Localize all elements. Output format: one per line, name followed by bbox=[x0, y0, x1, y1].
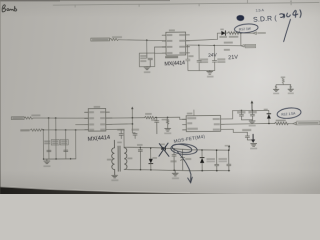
diode D7 bbox=[264, 109, 271, 124]
capacitor C13 (snubber on rail) bbox=[138, 147, 142, 169]
svg-text:R12 1W: R12 1W bbox=[239, 27, 252, 32]
svg-text:21V: 21V bbox=[228, 55, 238, 62]
resistor RF (filter vertical 4) bbox=[75, 130, 77, 159]
svg-text:24V: 24V bbox=[208, 52, 218, 58]
connector J4 (output label box) bbox=[297, 121, 320, 125]
node (junction) bbox=[146, 39, 148, 41]
wire (filter bottom rail) bbox=[44, 158, 76, 160]
wire bbox=[155, 117, 186, 120]
ground bbox=[112, 175, 118, 178]
svg-text:1.5 A: 1.5 A bbox=[256, 8, 265, 12]
node Bomb (handwritten title top-left) bbox=[2, 5, 17, 12]
diode D5 (vertical) bbox=[149, 147, 157, 170]
svg-text:R12 1.5A: R12 1.5A bbox=[281, 111, 296, 116]
capacitor C14 bbox=[172, 149, 176, 171]
connector J2 (AC line input box) bbox=[11, 117, 24, 120]
wire (U3 lower right to cap) bbox=[221, 129, 248, 132]
svg-text:MX(4414: MX(4414 bbox=[87, 135, 110, 143]
diode D04 bbox=[219, 29, 227, 38]
power VCC3 (arrow on aux vertical) bbox=[131, 109, 133, 133]
wire (line bus) bbox=[33, 117, 88, 118]
capacitor C4 (left of cluster) bbox=[186, 45, 191, 71]
capacitor C16 bbox=[206, 158, 215, 160]
capacitor CX2 (filter vertical 2) bbox=[55, 118, 57, 159]
node oval scribble (over snubber) bbox=[170, 143, 197, 156]
node (output arrow connector) bbox=[253, 32, 256, 35]
wire (U2 pin3 to aux vertical) bbox=[106, 123, 132, 125]
ground bbox=[288, 89, 294, 91]
ground bbox=[207, 70, 213, 74]
capacitor CX0 (filter vertical 0) bbox=[42, 130, 44, 159]
node pen arrow (down) bbox=[178, 152, 193, 183]
ground (photo bottom dark band / table edge) bbox=[0, 186, 190, 193]
ground bbox=[144, 67, 150, 70]
capacitor C10 bbox=[237, 111, 245, 113]
node (filter component labels) bbox=[44, 140, 67, 144]
resistor divider to dual ground (mid right) bbox=[273, 76, 294, 94]
node pen X over diode D6 bbox=[159, 143, 169, 156]
resistor (left arm) bbox=[275, 85, 277, 90]
wire (U2 pin2 to net) bbox=[106, 117, 144, 119]
ground bbox=[251, 144, 257, 147]
node (output arrow connector) bbox=[293, 122, 296, 125]
capacitor C8b bbox=[133, 133, 138, 139]
power arrow (dark down arrow mark) bbox=[252, 134, 254, 139]
wire (module to U1 pin4) bbox=[155, 52, 166, 54]
varistor RV1 (filter vertical 3) bbox=[65, 130, 67, 159]
capacitor C8a (below aux) bbox=[119, 130, 123, 139]
node (junction) bbox=[240, 32, 242, 34]
ground bbox=[249, 121, 255, 124]
ground bbox=[44, 159, 50, 164]
wire (secondary bottom rail) bbox=[124, 169, 230, 172]
resistor R12 (series output) bbox=[275, 122, 289, 125]
capacitor C17 bbox=[218, 158, 227, 160]
fuse F1 bbox=[110, 38, 119, 40]
node (arrow connector 2) bbox=[241, 45, 244, 47]
wire (secondary top rail) bbox=[124, 146, 230, 151]
wire bbox=[118, 39, 166, 41]
capacitor C15 (electrolytic) bbox=[180, 149, 184, 170]
wire (VCC node bar) bbox=[239, 109, 269, 112]
capacitor C6 bbox=[212, 45, 217, 70]
node circled annotation R12 1.5A (right) bbox=[277, 107, 302, 120]
capacitor C8 bbox=[155, 117, 159, 133]
op-amp U2 (PWM IC lower left) bbox=[85, 108, 113, 131]
ground bbox=[172, 170, 178, 176]
node ink scribble blob bbox=[237, 15, 245, 21]
wire bbox=[288, 123, 293, 125]
wire (photo left edge strip) bbox=[0, 0, 1, 194]
resistor R8 (vertical to ground) bbox=[166, 117, 168, 128]
capacitor CX1 (filter vertical 1) bbox=[48, 118, 50, 159]
ground bbox=[273, 89, 279, 91]
wire (pen stroke down from note) bbox=[283, 19, 290, 41]
connector J3 (neutral label) bbox=[20, 129, 29, 131]
wire bbox=[2, 0, 320, 185]
power VCC (up arrow) bbox=[251, 103, 253, 110]
wire (photo top edge shadow) bbox=[0, 0, 170, 1]
node circled annotation R12 1W (top) bbox=[234, 23, 258, 34]
wire (stub to vertical 3 from U2 pin3) bbox=[76, 124, 85, 126]
ground bbox=[165, 128, 171, 131]
wire (frame vertical at top) bbox=[246, 0, 248, 3]
node (junctions on buses) bbox=[42, 117, 76, 131]
wire (U3 pin1 stub up) bbox=[193, 110, 195, 116]
power VCC2 (up arrow on block) bbox=[228, 147, 230, 150]
transformer T1 bbox=[112, 140, 127, 175]
svg-text:MOS-FET(M4): MOS-FET(M4) bbox=[173, 134, 205, 144]
capacitor C12 bbox=[242, 129, 251, 131]
op-amp U1 (controller IC top) bbox=[162, 32, 190, 55]
wire (U2 pin8 down to transformer) bbox=[106, 129, 124, 147]
wire (cluster bottom bar) bbox=[188, 69, 215, 72]
wire (box to U1 pin3 jog) bbox=[155, 47, 167, 53]
diode D6 (series on rail, crossed out) bbox=[160, 144, 166, 151]
wire (U3 pin top right to VCC node) bbox=[220, 111, 239, 119]
border frame top line bbox=[53, 3, 319, 8]
svg-text:MX(4414: MX(4414 bbox=[164, 60, 185, 67]
capacitor C1 (boxed module with ground) bbox=[139, 53, 154, 67]
capacitor C11 bbox=[248, 111, 256, 113]
fuse F2 bbox=[24, 117, 33, 119]
wire (U1 pin3 long line right) bbox=[186, 45, 241, 47]
wire bbox=[146, 40, 148, 53]
wire (junction down to lower rail) bbox=[240, 33, 242, 45]
resistor (right arm) bbox=[290, 85, 292, 90]
fuse F3 bbox=[30, 129, 43, 131]
op-amp U3 (output regulator IC) bbox=[182, 115, 224, 131]
diode D10 (vertical, right block) bbox=[200, 149, 204, 171]
wire (neutral bus) bbox=[43, 128, 89, 131]
svg-text:S.D.R (: S.D.R ( bbox=[253, 15, 278, 24]
wire bbox=[240, 32, 253, 34]
resistor R04 bbox=[228, 32, 240, 35]
wire (output line) bbox=[221, 123, 275, 126]
wire (U1 pin2 to diode via jog) bbox=[186, 33, 221, 41]
connector J1 (AC input box top circuit) bbox=[91, 38, 110, 41]
resistor R7 (series on net) bbox=[144, 116, 155, 119]
capacitor C5 bbox=[197, 45, 202, 70]
